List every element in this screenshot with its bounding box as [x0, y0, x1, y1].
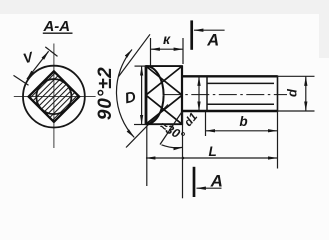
V dimension extension line upper	[45, 47, 57, 57]
kappa dimension extension right	[182, 38, 184, 64]
inner circle (shank through square)	[36, 79, 71, 114]
b dimension extension right (bolt end)	[277, 112, 279, 169]
head bottom outline	[145, 123, 183, 125]
hatching of square neck section	[0, 58, 121, 135]
section arrow bottom	[197, 187, 222, 189]
head flat face	[145, 66, 148, 125]
svg-text:A-A: A-A	[42, 18, 70, 35]
cone-square intersection arc lower	[146, 95, 164, 124]
D dimension extension bottom	[134, 124, 146, 126]
b dimension line	[206, 130, 278, 132]
head top outline	[145, 65, 183, 67]
main axis centerline	[164, 94, 287, 96]
svg-text:90°±2: 90°±2	[95, 66, 116, 120]
d dimension arrow	[305, 77, 307, 111]
V dimension line	[27, 51, 49, 79]
D dimension line	[141, 66, 143, 124]
section view centerline horizontal	[14, 96, 96, 98]
L dimension extension left (head face)	[146, 126, 148, 186]
svg-text:A: A	[206, 31, 219, 49]
thread runout line	[160, 112, 182, 145]
square neck section (diamond)	[29, 71, 80, 122]
svg-text:d: d	[284, 88, 299, 97]
title underline	[43, 32, 73, 34]
L dimension line	[146, 157, 277, 159]
section plane mark bottom	[193, 167, 196, 197]
thread minor diameter bottom	[207, 103, 274, 105]
neck flat diagonal upper 1	[146, 67, 181, 95]
90 degree lower extension ray	[126, 105, 168, 148]
kappa dimension extension left	[150, 38, 152, 66]
section arrow top	[194, 29, 225, 31]
svg-text:L: L	[208, 144, 216, 159]
section view centerline vertical	[53, 44, 55, 149]
L dimension extension neck	[182, 112, 184, 198]
svg-text:A: A	[210, 171, 223, 190]
cone-square intersection arc upper	[146, 66, 164, 95]
D dimension extension top	[135, 65, 147, 67]
shank bottom outline	[182, 110, 278, 112]
thread start line	[206, 77, 208, 111]
d dimension extension bottom	[278, 110, 315, 112]
thread minor diameter top	[207, 82, 274, 84]
neck flat diagonal lower 1	[146, 96, 181, 124]
shank top outline	[182, 75, 278, 77]
junction dot	[182, 157, 185, 160]
bolt end	[277, 75, 279, 112]
approx 30 deg leader arc	[162, 145, 183, 148]
d dimension extension top	[278, 75, 315, 77]
90 degree upper extension ray	[119, 34, 150, 76]
d1 dimension arrow	[198, 77, 200, 111]
kappa dimension line	[151, 48, 184, 50]
V dimension extension line lower	[14, 75, 29, 85]
svg-text:к: к	[163, 31, 171, 47]
neck flat diagonal lower 2	[146, 96, 181, 124]
section plane mark top	[190, 20, 193, 49]
90 degree dimension arc	[116, 50, 134, 138]
b dimension extension left	[205, 112, 207, 136]
square neck rear edge	[181, 66, 183, 125]
svg-text:b: b	[239, 114, 247, 129]
head outline circle	[23, 66, 85, 128]
neck flat diagonal upper 2	[146, 67, 181, 95]
